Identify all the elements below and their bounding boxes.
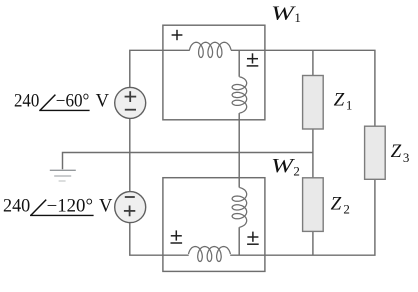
- wattmeter W2 box: [163, 178, 265, 272]
- svg-text:1: 1: [294, 10, 301, 25]
- svg-text:V: V: [99, 197, 113, 217]
- impedance Z3: [365, 126, 386, 179]
- wire Z1 top lead from top rail: [312, 50, 314, 75]
- wattmeter W2 voltage coil: [232, 188, 247, 228]
- label Z2: [331, 194, 350, 217]
- label 240 angle -120 V: [3, 197, 113, 217]
- W2 left polarity mark plus-minus: [171, 230, 183, 243]
- svg-text:1: 1: [346, 97, 353, 112]
- label Z1: [334, 90, 353, 113]
- svg-text:2: 2: [293, 164, 300, 179]
- wire bottom rail from W2 coil to corner and up to Z3: [230, 179, 375, 255]
- wire from source V1 up then right to W1 current coil: [130, 50, 190, 87]
- svg-text:Z: Z: [391, 141, 402, 162]
- voltage source V2 (240 angle -120 V): [115, 192, 146, 223]
- svg-text:2: 2: [343, 202, 350, 217]
- W1 polarity mark plus-minus: [247, 53, 259, 66]
- wire top rail from W1 coil right to corner and down to Z3: [231, 50, 375, 126]
- wire Z2 bottom lead to bottom rail: [312, 231, 314, 255]
- svg-text:240: 240: [14, 92, 39, 112]
- W2 right polarity mark plus-minus: [247, 232, 259, 245]
- impedance Z1: [303, 76, 324, 130]
- wattmeter W1 current coil: [190, 42, 232, 57]
- svg-text:3: 3: [403, 150, 410, 165]
- svg-text:−60°: −60°: [56, 92, 90, 112]
- wattmeter W2 current coil: [189, 247, 231, 262]
- ground: [50, 170, 76, 181]
- wire middle line from Z1-Z2 junction to ground corner: [63, 153, 313, 170]
- label Z3: [391, 141, 410, 165]
- wire W1 voltage-coil branch from top wire down through W2 voltage coil to bottom: [238, 50, 240, 255]
- svg-text:Z: Z: [334, 90, 345, 111]
- W1 polarity mark +: [172, 30, 183, 40]
- svg-text:W: W: [271, 3, 296, 24]
- svg-text:W: W: [271, 156, 295, 177]
- wire Z1 bottom to Z2 top through middle junction: [312, 129, 314, 178]
- svg-text:240: 240: [3, 197, 30, 217]
- label W1: [271, 3, 301, 24]
- svg-text:Z: Z: [331, 194, 342, 215]
- svg-text:−120°: −120°: [47, 197, 93, 217]
- wire from source V2 down then right to W2 current coil: [130, 223, 189, 256]
- wire left vertical between sources: [129, 118, 131, 192]
- impedance Z2: [303, 178, 324, 232]
- label 240 angle -60 V: [14, 92, 110, 112]
- wattmeter W1 voltage coil: [232, 77, 247, 113]
- voltage source V1 (240 angle -60 V): [115, 87, 146, 118]
- wattmeter W1 box: [163, 25, 265, 120]
- svg-text:V: V: [96, 92, 110, 112]
- label W2: [271, 156, 300, 179]
